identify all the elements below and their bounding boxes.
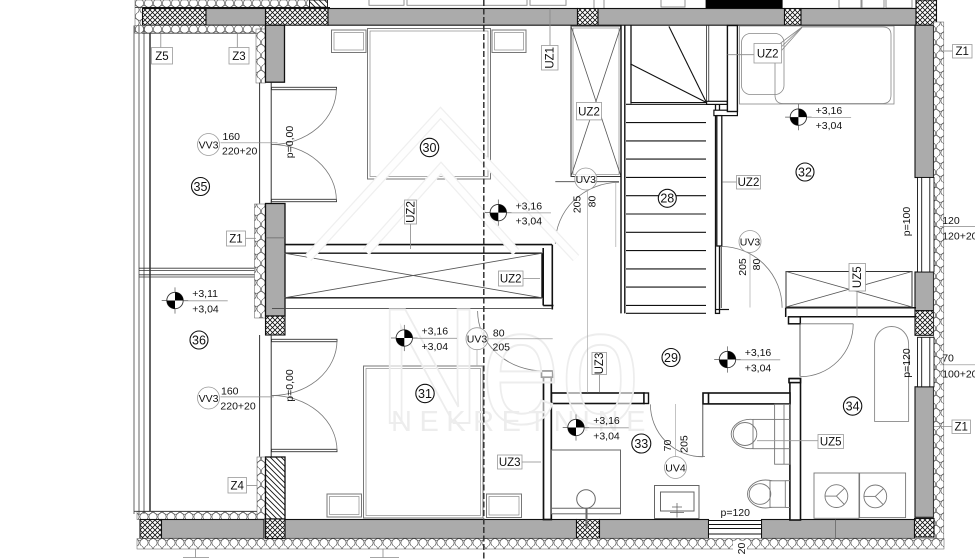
- washing machine left room 34: [814, 473, 859, 518]
- wall: bottom band hatched corner left: [140, 520, 162, 539]
- toilet 1 bowl outline: [731, 419, 770, 448]
- door of room 34 swing arc: [800, 324, 853, 377]
- svg-text:205: 205: [571, 195, 583, 213]
- dimension 120 / 120+20 right: [940, 215, 975, 243]
- room number circle 32: [796, 163, 814, 181]
- washbasin in bath 33: [655, 486, 700, 519]
- bed room 32 fold line: [777, 27, 803, 52]
- elevation marker bedroom 30: [485, 200, 551, 228]
- room number circle 29: [662, 349, 680, 367]
- svg-text:p=100: p=100: [901, 207, 913, 237]
- dimension 70 / 100+20 right: [940, 353, 975, 381]
- plumbing shaft behind toilet 1: [775, 404, 790, 464]
- svg-text:Z1: Z1: [954, 422, 967, 434]
- label UZ2 on tall closet: [577, 102, 602, 120]
- svg-text:Z3: Z3: [232, 51, 245, 63]
- wall: hatched pier (Z4): [266, 457, 286, 519]
- elevation marker terrace 36: [162, 287, 228, 315]
- wall: top exterior band insulation strip above: [135, 0, 310, 7]
- toilet 2 bowl outline: [748, 480, 784, 508]
- door UV4 open leaf: [702, 404, 704, 456]
- door of room 34 open leaf: [799, 324, 801, 377]
- elevation marker bedroom 31: [391, 325, 457, 353]
- door label UV3 corridor room 32 with dims: [737, 231, 763, 308]
- label UZ5 room 34 with leader: [757, 435, 844, 449]
- bed room 32 blanket: [775, 27, 891, 104]
- svg-text:34: 34: [846, 399, 860, 413]
- label UZ3 rotated corridor with leader: [592, 353, 607, 393]
- bottom dimension stub left: [183, 549, 209, 558]
- svg-text:UZ2: UZ2: [738, 177, 760, 189]
- svg-text:30: 30: [423, 141, 437, 155]
- window label VV3 lower with dimension 160/220+20: [198, 385, 274, 412]
- svg-text:UV4: UV4: [665, 463, 686, 475]
- room number circle 35: [192, 178, 210, 196]
- door VV3 upper leaf top: [272, 87, 337, 89]
- wall cap top of toilet room east wall: [789, 379, 801, 383]
- wall: room 32 west wall upper: [727, 26, 737, 112]
- washing machine right room 34: [860, 473, 906, 518]
- svg-text:31: 31: [418, 387, 432, 401]
- svg-text:+3,04: +3,04: [745, 362, 772, 374]
- door VV3 upper jambs: [260, 83, 272, 204]
- svg-text:+3,04: +3,04: [816, 120, 843, 132]
- door VV3 upper swing arcs: [272, 89, 337, 201]
- wall: top band concrete segment 4: [801, 9, 916, 26]
- svg-text:UZ2: UZ2: [757, 49, 779, 61]
- wall cap left end of corridor south wall: [708, 393, 710, 404]
- svg-text:UZ2: UZ2: [406, 201, 418, 223]
- svg-text:70: 70: [662, 440, 674, 452]
- svg-text:Z4: Z4: [230, 480, 244, 492]
- svg-text:UZ5: UZ5: [820, 437, 842, 449]
- wall: concrete pier 2 (Z1): [266, 204, 286, 317]
- wall jog second step: [714, 110, 738, 115]
- door UV3 of bedroom 31 leaf line: [272, 308, 552, 310]
- door VV3 lower swing arcs: [272, 341, 337, 451]
- wall: hatched block top-left corner: [310, 0, 328, 7]
- svg-text:28: 28: [660, 192, 674, 206]
- toilet 2 platform lines: [785, 481, 790, 508]
- toilet 2 inner bowl: [749, 484, 771, 505]
- wall: bottom band joint line: [835, 520, 837, 539]
- door UV3 room 32 open leaf: [720, 246, 722, 308]
- nightstand left bedroom 31: [327, 494, 362, 517]
- room number circle 34: [843, 397, 861, 415]
- wall: room 32 west wall below jog: [717, 116, 722, 246]
- svg-text:160: 160: [221, 385, 239, 397]
- wall: right exterior hatched block at room 32/34 junction: [915, 311, 934, 336]
- dimension extension line at bedroom 30 door: [615, 183, 617, 247]
- room number circle 30: [420, 138, 438, 156]
- svg-text:205: 205: [737, 258, 749, 276]
- door UV3 of bedroom 30 leaf line: [555, 181, 619, 183]
- tall closet UZ2 in bedroom 30: [571, 26, 621, 177]
- balcony edge line above top wall: [135, 7, 330, 9]
- wall: hatched corner block top-right: [916, 0, 937, 25]
- window lower in right wall: [918, 337, 935, 387]
- door UV3 bedroom 30 swing arc: [555, 182, 619, 244]
- svg-text:+3,04: +3,04: [192, 303, 219, 315]
- door UV3 bedroom 31 swing arc: [478, 311, 544, 371]
- label Z1 right top with leader: [939, 45, 973, 59]
- svg-text:205: 205: [678, 435, 690, 453]
- door UV4 arc end stub: [698, 456, 705, 458]
- tall closet UZ2 cross diagonals: [571, 26, 621, 177]
- watermark roof chevron inner: [366, 168, 516, 252]
- bathtub room 34: [875, 327, 909, 422]
- nightstand right bedroom 31: [487, 494, 522, 518]
- wall: hatched pier crosshatch foot: [266, 519, 286, 539]
- closet UZ2 right end bracket: [543, 245, 553, 310]
- room number circle 31: [416, 384, 434, 402]
- closet UZ5 cross diagonals: [786, 272, 912, 308]
- wall: top band hatched segment 2: [266, 9, 329, 26]
- svg-text:80: 80: [587, 196, 599, 208]
- wall cap at top of bedroom31/bath33 wall: [542, 371, 553, 377]
- svg-text:UV3: UV3: [467, 334, 488, 346]
- stairwell left wall double line: [621, 26, 625, 314]
- door of room 34 closed line: [800, 323, 853, 325]
- label Z1 left with leader: [227, 231, 257, 246]
- door UV3 room 32 swing arc: [721, 247, 782, 308]
- wall: top band hatched segment 4: [785, 9, 802, 26]
- wall: fish insulation row under top band (terrace 35): [135, 26, 265, 34]
- wall piece under stair bottom right: [716, 309, 730, 311]
- svg-text:p=120: p=120: [721, 507, 751, 519]
- svg-text:Z1: Z1: [955, 46, 968, 58]
- svg-text:+3,04: +3,04: [593, 430, 620, 442]
- svg-text:70: 70: [942, 353, 954, 365]
- label Z5 with leader: [152, 33, 173, 64]
- wall: toilet room east wall: [790, 379, 801, 520]
- elevation marker room 32: [785, 104, 851, 132]
- svg-text:VV3: VV3: [199, 140, 219, 152]
- svg-text:UZ2: UZ2: [500, 274, 522, 286]
- wall: bottom band hatched segment under bath 33: [577, 520, 600, 539]
- wall: bottom band concrete segment 4: [762, 520, 915, 539]
- svg-text:+3,04: +3,04: [422, 341, 449, 353]
- svg-text:+3,16: +3,16: [516, 200, 543, 212]
- label UZ2 room 32 with leaders: [728, 28, 803, 64]
- closet UZ2 between bedrooms 30 and 31 top line: [285, 244, 553, 246]
- toilet 1 platform lines: [775, 419, 790, 448]
- door label UV4 with dims: [662, 404, 691, 479]
- terrace floor line south (room 36): [134, 510, 264, 512]
- wall cap right end of bath 33 north wall: [644, 393, 649, 404]
- svg-text:Z1: Z1: [229, 234, 242, 246]
- elevation marker corridor 29: [714, 346, 780, 374]
- wall: corridor south wall (toilet room north): [703, 393, 790, 404]
- wall: fish insulation beside pier 1: [256, 29, 266, 83]
- stair winder lines: [630, 26, 706, 102]
- bathtub in bath 33: [552, 450, 621, 514]
- svg-text:UZ2: UZ2: [578, 107, 600, 119]
- bed room 32 frame: [740, 26, 895, 104]
- svg-text:UZ5: UZ5: [852, 266, 864, 288]
- bed bedroom 30: [368, 29, 491, 180]
- svg-text:+3,16: +3,16: [816, 105, 843, 117]
- dimension 20 rotated at bottom window: [733, 540, 748, 557]
- svg-text:33: 33: [634, 437, 648, 451]
- door VV3 lower leaf top: [272, 339, 338, 341]
- svg-text:Z5: Z5: [155, 51, 168, 63]
- wall: fish insulation beside hatch pier: [257, 457, 266, 519]
- svg-text:+3,04: +3,04: [516, 216, 543, 228]
- wall: room 32 south wall (under closet UZ5): [786, 308, 916, 317]
- toilet 2 tank: [770, 481, 785, 508]
- room number circle 28: [658, 189, 676, 207]
- bathtub drain circle and stem: [577, 490, 596, 528]
- wall: bottom band concrete segment 1: [162, 520, 265, 539]
- svg-text:+3,16: +3,16: [745, 347, 772, 359]
- wall: bottom band concrete segment 2: [285, 520, 577, 539]
- wall jog at stair top right: [707, 101, 728, 104]
- toilet 1 tank: [753, 419, 775, 448]
- wall cap left of room 34 door: [789, 317, 801, 324]
- label UZ3 bedroom 31 with leader: [498, 455, 542, 469]
- label UZ1 rotated with leader: [542, 9, 559, 70]
- svg-text:36: 36: [192, 333, 206, 347]
- door VV3 upper leaf bottom: [272, 199, 337, 201]
- closet UZ5 in room 32: [786, 272, 912, 308]
- svg-text:80: 80: [751, 259, 763, 271]
- nightstand right bedroom 30: [492, 30, 526, 53]
- wall: pier 2 joint line: [266, 237, 286, 239]
- svg-text:220+20: 220+20: [220, 401, 255, 413]
- elevation marker bath 33: [563, 414, 629, 442]
- terrace inner face line north: [142, 32, 256, 34]
- wall: top band hatched segment 3: [578, 9, 599, 26]
- svg-text:100+20: 100+20: [942, 369, 975, 381]
- wall: fish insulation beside pier 2: [255, 204, 266, 318]
- label UZ2 rotated bedroom 30 with leader: [405, 200, 418, 249]
- toilet 1 inner bowl: [733, 423, 757, 446]
- wall: right exterior wall middle segment: [915, 272, 934, 311]
- bed room 32 pillow: [742, 34, 785, 95]
- wall: top band concrete segment 2: [328, 9, 578, 26]
- wall: concrete pier 1 (Z3): [266, 25, 285, 82]
- wall: right exterior wall upper segment: [915, 25, 934, 177]
- stair right wall: [716, 104, 720, 313]
- svg-text:220+20: 220+20: [222, 146, 257, 158]
- svg-text:UV3: UV3: [740, 237, 761, 249]
- wall: bottom band hatched corner right: [915, 519, 935, 538]
- label UZ2 corridor with leader: [722, 176, 760, 190]
- svg-text:p=0,00: p=0,00: [284, 369, 296, 402]
- svg-text:80: 80: [493, 327, 505, 339]
- door VV3 lower jambs: [260, 335, 272, 457]
- wall: black balcony slab top-right: [706, 0, 783, 9]
- room number circle 36: [190, 331, 208, 349]
- svg-text:205: 205: [493, 341, 511, 353]
- nightstand left bedroom 30: [332, 30, 367, 53]
- wall: bath 33 north wall: [552, 393, 645, 404]
- svg-text:29: 29: [664, 351, 678, 365]
- balcony furniture above top wall (cut off): [369, 0, 912, 9]
- closet UZ2 cross diagonals: [285, 253, 543, 298]
- svg-text:120: 120: [942, 215, 960, 227]
- label UZ2 on horizontal closet with leader: [499, 271, 541, 286]
- svg-text:160: 160: [223, 131, 241, 143]
- svg-text:20: 20: [736, 543, 748, 555]
- svg-text:UZ3: UZ3: [594, 353, 606, 375]
- label Z4 with leader: [228, 478, 257, 494]
- label Z3 with leader: [229, 33, 249, 64]
- svg-text:p=120: p=120: [901, 348, 913, 378]
- svg-text:+3,11: +3,11: [192, 288, 218, 300]
- svg-text:UV3: UV3: [576, 174, 597, 186]
- wall: pier 2 hatched block: [266, 316, 286, 335]
- door VV3 lower leaf bottom: [272, 449, 338, 451]
- section dash line: [483, 0, 485, 560]
- label UZ5 rotated on closet with leader: [849, 264, 866, 317]
- bottom dimension stub middle: [370, 549, 399, 558]
- svg-text:35: 35: [194, 180, 208, 194]
- door label UV3 bedroom 31 with dims: [466, 327, 553, 366]
- svg-text:120+20: 120+20: [942, 231, 975, 243]
- wall: bottom fish insulation row: [137, 539, 944, 550]
- svg-text:UZ3: UZ3: [499, 457, 521, 469]
- divider wall between terrace 35 and 36: [139, 268, 258, 277]
- wall between bedroom 31 and bath 33: [544, 371, 552, 520]
- wall: right exterior wall lower segment: [915, 387, 934, 518]
- bed bedroom 31: [364, 366, 484, 518]
- window label VV3 upper with dimension 160/220+20: [198, 131, 278, 158]
- door UV4 swing arc: [650, 404, 702, 456]
- terrace west railing lines: [134, 26, 144, 515]
- stair treads: [626, 104, 706, 313]
- wall: bottom band concrete segment 3: [600, 520, 709, 539]
- wall: top band concrete segment 3: [598, 9, 785, 26]
- stair upper flight edges: [707, 26, 709, 103]
- svg-text:VV3: VV3: [199, 393, 219, 405]
- svg-text:p=0,00: p=0,00: [284, 126, 296, 159]
- wall: top band concrete segment 1: [206, 9, 266, 26]
- closet UZ2 horizontal body: [285, 253, 543, 298]
- door label UV3 bedroom 30 with dims: [571, 168, 598, 393]
- wall: bottom band fish row above (terrace 36): [137, 512, 264, 520]
- svg-text:32: 32: [798, 165, 812, 179]
- wall: fish insulation strip outside right wall: [934, 22, 944, 545]
- terrace inner face line west: [149, 33, 151, 512]
- svg-text:UZ1: UZ1: [545, 47, 557, 69]
- watermark roof chevron outer: [308, 113, 576, 258]
- svg-text:+3,16: +3,16: [593, 415, 620, 427]
- room number circle 33: [632, 434, 651, 453]
- wall: fish insulation left edge of top band: [135, 8, 143, 34]
- window Z1 upper in right wall: [918, 178, 935, 273]
- svg-text:+3,16: +3,16: [422, 326, 449, 338]
- window in bottom band (p=120): [709, 521, 762, 540]
- wall: top band hatched segment 1: [143, 9, 207, 26]
- stair flight left edge line: [630, 26, 632, 104]
- label Z1 right bottom with leader: [934, 420, 971, 434]
